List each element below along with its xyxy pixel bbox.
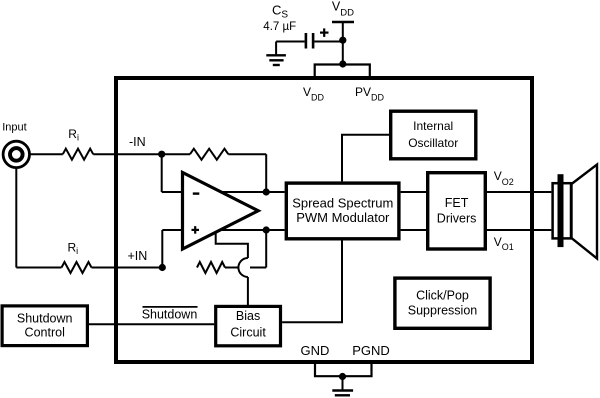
svg-text:Internal: Internal <box>413 119 453 133</box>
svg-text:PWM Modulator: PWM Modulator <box>296 210 390 225</box>
svg-text:GND: GND <box>301 343 330 358</box>
svg-text:Spread Spectrum: Spread Spectrum <box>292 196 393 211</box>
svg-text:Oscillator: Oscillator <box>408 136 458 150</box>
svg-text:Shutdown: Shutdown <box>17 311 73 325</box>
svg-text:PGND: PGND <box>352 343 390 358</box>
svg-text:Circuit: Circuit <box>230 326 266 340</box>
svg-text:Bias: Bias <box>236 309 260 323</box>
svg-text:+IN: +IN <box>128 249 148 263</box>
svg-text:Shutdown: Shutdown <box>142 308 198 322</box>
svg-text:Click/Pop: Click/Pop <box>416 289 469 303</box>
svg-text:Drivers: Drivers <box>437 211 477 225</box>
svg-text:Input: Input <box>2 122 26 134</box>
svg-text:Suppression: Suppression <box>408 303 478 317</box>
svg-text:4.7 µF: 4.7 µF <box>263 21 296 33</box>
svg-text:-IN: -IN <box>129 135 146 149</box>
svg-text:FET: FET <box>445 196 469 210</box>
svg-text:Control: Control <box>25 326 65 340</box>
